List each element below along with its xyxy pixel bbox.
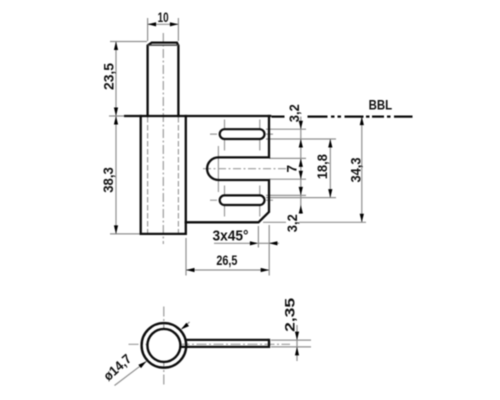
svg-text:38,3: 38,3 [100,167,116,193]
svg-text:3x45°: 3x45° [213,228,249,245]
svg-text:2,35: 2,35 [281,298,297,332]
svg-text:23,5: 23,5 [101,63,117,90]
svg-text:10: 10 [158,9,169,25]
svg-text:26,5: 26,5 [216,253,237,268]
svg-text:3,2: 3,2 [284,214,300,232]
svg-text:18,8: 18,8 [314,154,330,179]
svg-text:7: 7 [283,165,299,173]
svg-text:34,3: 34,3 [347,157,363,182]
svg-text:BBL: BBL [369,96,393,112]
svg-text:3,2: 3,2 [286,104,302,122]
